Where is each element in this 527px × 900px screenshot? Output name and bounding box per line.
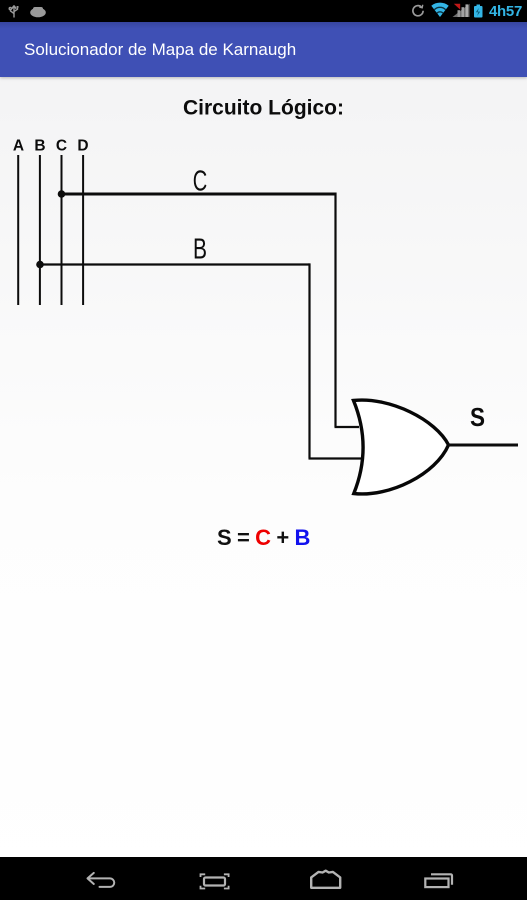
wire C vertical (334, 193, 336, 428)
svg-text:Circuito Lógico:: Circuito Lógico: (183, 97, 344, 120)
wire B vertical (308, 263, 310, 458)
nav button hide-bar (201, 874, 229, 888)
navigation bar (0, 857, 527, 900)
action bar title (0, 22, 527, 77)
status icon USB debugging (9, 6, 18, 18)
OR gate U1 (354, 400, 449, 494)
svg-text:B: B (193, 234, 207, 266)
status icon signal strength (453, 4, 470, 17)
nav button back (88, 873, 115, 887)
junction node C (58, 190, 66, 198)
wire B gate stub (309, 457, 362, 459)
status bar (0, 0, 527, 22)
status icon USB connected (30, 7, 46, 17)
wire B horizontal (40, 263, 310, 265)
input line B (39, 155, 41, 305)
status icon sync ring (413, 5, 423, 16)
junction node B (36, 261, 44, 269)
wire C horizontal (62, 193, 336, 196)
nav button recents (425, 874, 452, 887)
input line C (61, 155, 63, 305)
status icon wifi (431, 3, 448, 17)
svg-text:D: D (77, 137, 88, 154)
svg-text:A: A (13, 137, 24, 154)
status icon battery charging (474, 5, 483, 18)
svg-text:S: S (470, 402, 485, 432)
svg-text:S = C + B: S = C + B (217, 525, 310, 550)
output wire S (449, 444, 519, 447)
wire C gate stub (335, 426, 360, 428)
nav button home (311, 871, 340, 888)
svg-text:B: B (34, 137, 45, 154)
input line D (82, 155, 84, 305)
svg-text:C: C (56, 137, 67, 154)
input line A (17, 155, 19, 305)
svg-text:4h57: 4h57 (489, 3, 522, 20)
